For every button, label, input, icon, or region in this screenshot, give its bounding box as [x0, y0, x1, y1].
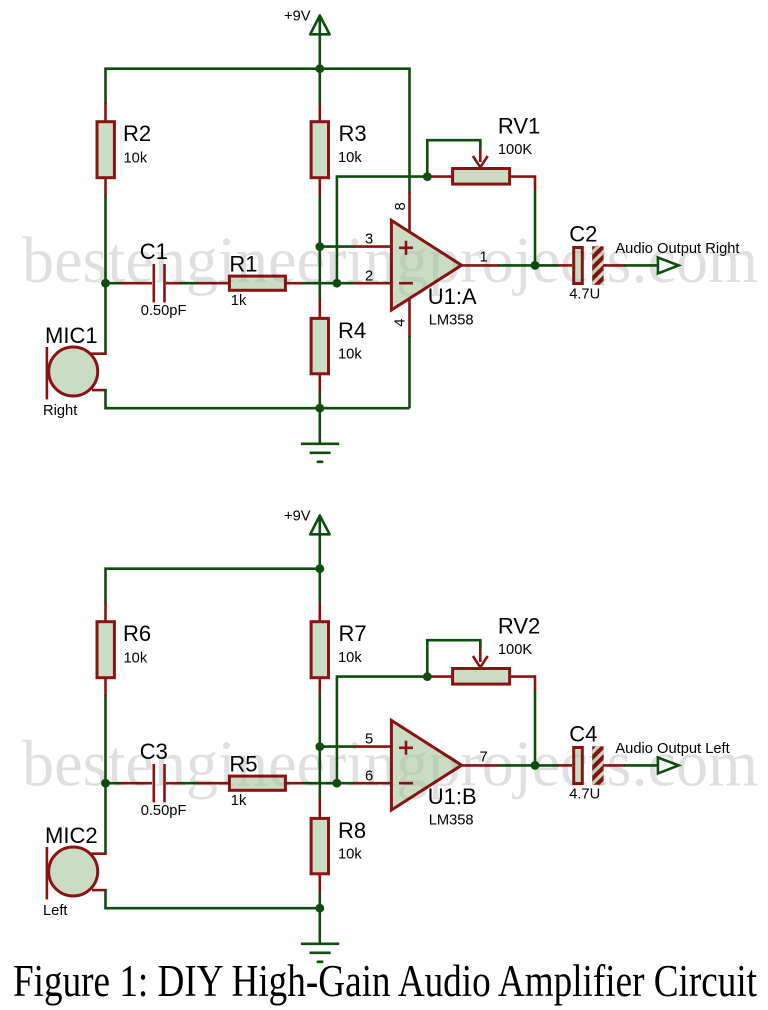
node top rail junction: [315, 64, 324, 73]
potentiometer RV1: [428, 175, 453, 178]
capacitor C3: [106, 782, 122, 785]
wire RV1 wiper loop: [427, 140, 480, 176]
svg-text:R2: R2: [123, 121, 151, 146]
svg-text:Figure 1: DIY High-Gain Audio: Figure 1: DIY High-Gain Audio Amplifier …: [13, 956, 757, 1006]
svg-text:+9V: +9V: [284, 509, 311, 525]
capacitor C4: [557, 764, 572, 767]
wire feedback vertical (bottom): [337, 677, 427, 784]
svg-text:MIC1: MIC1: [45, 323, 98, 348]
svg-text:10k: 10k: [338, 347, 362, 363]
op-amp U1:A: [391, 220, 461, 310]
svg-text:10k: 10k: [338, 847, 362, 863]
node pin7: [531, 761, 540, 770]
wire pin3 from R3 line: [320, 245, 355, 248]
wire mic bottom to ground rail (bottom): [106, 889, 320, 908]
wire R8 to ground rail (bottom): [318, 892, 321, 908]
pin 8 lead: [408, 193, 411, 233]
svg-text:bestengineeringprojects.com: bestengineeringprojects.com: [22, 224, 758, 297]
svg-text:0.50pF: 0.50pF: [141, 803, 187, 819]
output terminal arrow: [658, 258, 679, 274]
svg-text:0.50pF: 0.50pF: [141, 303, 187, 319]
pin C2 right: [603, 264, 625, 267]
wire pin4 to ground rail: [408, 336, 411, 408]
svg-text:MIC2: MIC2: [45, 823, 98, 848]
svg-text:R3: R3: [339, 121, 367, 146]
resistor R4: [318, 298, 321, 319]
resistor R2: [104, 103, 107, 122]
svg-text:Left: Left: [43, 903, 68, 919]
svg-text:LM358: LM358: [429, 812, 474, 828]
wire R4 to ground rail: [318, 392, 321, 408]
svg-text:100K: 100K: [498, 642, 533, 658]
pin 6 lead: [354, 782, 392, 785]
resistor R6: [104, 603, 107, 622]
microphone MIC1: [90, 352, 107, 355]
wire C1 to R1: [180, 282, 198, 285]
wire R1 to op-amp pin2: [302, 282, 355, 285]
node ground rail: [315, 404, 324, 413]
node pin3: [315, 242, 324, 251]
node pin5: [315, 742, 324, 751]
wire C3 to R5: [180, 782, 198, 785]
svg-text:10k: 10k: [124, 651, 148, 667]
wire feedback vertical: [337, 177, 427, 284]
wire ground rail right: [320, 407, 410, 410]
svg-text:R6: R6: [123, 621, 151, 646]
potentiometer RV2: [428, 675, 453, 678]
svg-text:R7: R7: [339, 621, 367, 646]
svg-text:10k: 10k: [124, 151, 148, 167]
node pin1: [531, 261, 540, 270]
svg-text:8: 8: [393, 202, 409, 210]
pin 7 lead: [462, 764, 499, 767]
resistor R3: [318, 103, 321, 122]
pin C4 right: [603, 764, 625, 767]
svg-text:R4: R4: [338, 318, 366, 343]
wire RV1 right terminal down to pin1 node: [534, 189, 537, 266]
wire R5 to op-amp pin6: [302, 782, 355, 785]
svg-text:RV1: RV1: [498, 113, 540, 138]
wire pin7 to C4: [498, 764, 535, 767]
output terminal arrow (bottom): [658, 758, 679, 774]
node top rail junction (bottom): [315, 564, 324, 573]
wire RV2 right terminal down to pin7 node: [534, 689, 537, 766]
resistor R7: [318, 603, 321, 622]
node RV2 left terminal: [423, 672, 432, 681]
capacitor C1: [106, 282, 122, 285]
wire left vertical: [104, 195, 107, 354]
svg-text:RV2: RV2: [498, 613, 540, 638]
pin 3 lead: [354, 245, 392, 248]
pin 5 lead: [354, 745, 392, 748]
resistor R1: [197, 282, 230, 285]
op-amp U1:B: [391, 720, 461, 810]
wire R3 to pin3 node: [318, 195, 321, 299]
resistor R5: [197, 782, 230, 785]
wire R7 to pin5 node: [318, 695, 321, 799]
resistor R8: [318, 798, 321, 819]
svg-text:R8: R8: [338, 818, 366, 843]
wire RV2 wiper loop: [427, 640, 480, 676]
node main left: [101, 279, 110, 288]
svg-text:10k: 10k: [338, 650, 362, 666]
power +9V symbol: [318, 18, 321, 104]
node pin2: [333, 279, 342, 288]
ground (bottom): [318, 908, 321, 944]
ground: [318, 408, 321, 444]
node pin6: [333, 779, 342, 788]
node ground rail (bottom): [315, 904, 324, 913]
capacitor C2: [557, 264, 572, 267]
node main left (bottom): [101, 779, 110, 788]
wire to output: [624, 264, 658, 267]
svg-text:bestengineeringprojects.com: bestengineeringprojects.com: [22, 728, 758, 801]
wire top rail (bottom): [106, 569, 320, 604]
wire pin5 from R7 line: [320, 745, 355, 748]
svg-text:Right: Right: [43, 403, 77, 419]
pin 4 lead: [408, 298, 411, 337]
power +9V symbol (bottom): [318, 518, 321, 604]
microphone MIC2: [90, 852, 107, 855]
wire mic bottom to ground rail: [106, 389, 320, 408]
wire to output (bottom): [624, 764, 658, 767]
svg-text:LM358: LM358: [429, 312, 474, 328]
wire top rail: [106, 69, 410, 194]
wire left vertical (bottom): [104, 695, 107, 854]
svg-text:+9V: +9V: [284, 9, 311, 25]
pin 1 lead: [462, 264, 499, 267]
svg-text:10k: 10k: [338, 150, 362, 166]
svg-text:4: 4: [393, 319, 409, 327]
node RV1 left terminal: [423, 172, 432, 181]
pin 2 lead: [354, 282, 392, 285]
svg-text:100K: 100K: [498, 142, 533, 158]
wire pin1 to C2: [498, 264, 535, 267]
